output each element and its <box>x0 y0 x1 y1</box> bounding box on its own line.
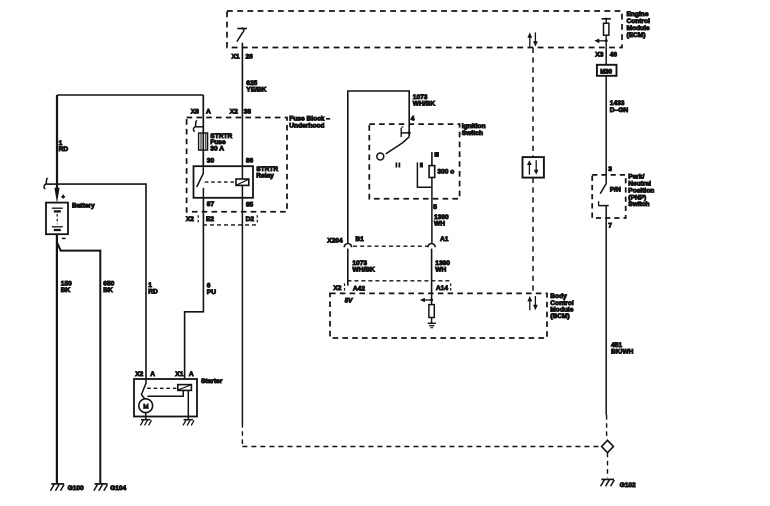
serial data gateway box with arrows <box>523 157 544 178</box>
ignition fixed contact pin 4 <box>401 127 411 137</box>
wire coil right side to ground <box>187 390 189 419</box>
battery symbol <box>46 203 95 239</box>
svg-text:D2: D2 <box>246 216 255 223</box>
svg-text:X1: X1 <box>232 53 240 60</box>
wire PNP pin 7 down (451 BK/WH) <box>606 206 633 415</box>
wire 1073 WH/BK below B1 <box>348 249 375 286</box>
ground below starter motor <box>140 420 151 426</box>
wire branch battery junction to starter <box>57 184 146 379</box>
node X204 inline connectors B1 A1 <box>327 236 448 247</box>
wire 1 RD battery to fuse block <box>57 95 68 189</box>
svg-text:BK/WH: BK/WH <box>611 349 634 356</box>
node BCM connector row X2 A42 A14 <box>333 281 450 293</box>
svg-text:WH: WH <box>434 221 445 228</box>
relay switch blade <box>197 166 204 198</box>
splice hook at battery positive <box>44 178 57 189</box>
BCM dashed box <box>330 293 574 338</box>
svg-text:PU: PU <box>207 289 216 296</box>
motor M <box>139 399 153 413</box>
BCM input arrow on A14 <box>420 293 433 304</box>
wire label 1 RD starter branch <box>148 282 158 296</box>
svg-text:86: 86 <box>246 158 254 165</box>
svg-text:(BCM): (BCM) <box>550 313 569 320</box>
wire dashed diamond to G102 <box>607 453 609 478</box>
wire battery feed into fuse <box>202 95 204 166</box>
wire 650 BK branch to G104 <box>57 242 115 483</box>
svg-text:BK: BK <box>61 287 71 294</box>
resistor pull-up inside ECM <box>602 18 611 48</box>
node X8 A and X2 38 connector labels <box>191 109 252 116</box>
svg-text:Relay: Relay <box>256 173 274 180</box>
serial data arrows inside ECM <box>527 32 537 46</box>
relay STRTR box <box>194 166 279 198</box>
splice terminal at fuse input <box>193 121 203 132</box>
svg-text:X3: X3 <box>595 52 603 59</box>
svg-text:WH: WH <box>435 267 446 274</box>
svg-text:Control: Control <box>627 18 651 25</box>
ground below starter solenoid <box>183 420 194 426</box>
PNP switch dashed box <box>592 174 654 218</box>
node X2 A / X1 A starter connector labels <box>135 371 194 378</box>
svg-text:5: 5 <box>433 204 437 211</box>
svg-text:X204: X204 <box>327 238 343 245</box>
svg-text:I I: I I <box>396 163 401 169</box>
ignition position marks I <box>396 163 401 169</box>
svg-text:G100: G100 <box>68 485 84 492</box>
wire relay 87 to starter solenoid (6 PU) <box>185 198 217 379</box>
svg-text:Switch: Switch <box>462 130 483 137</box>
fuse STRTR 30A <box>199 133 233 153</box>
module U1 Engine Control Module (ECM) dashed box <box>227 11 650 48</box>
ignition switch blade <box>386 137 409 154</box>
wire dashed into splice diamond <box>606 415 608 440</box>
PNP fixed contact <box>598 201 608 205</box>
svg-text:M30: M30 <box>600 68 612 75</box>
svg-text:RD: RD <box>59 146 69 153</box>
svg-text:WH/BK: WH/BK <box>352 267 375 274</box>
battery feed symbol inside ECM <box>237 27 247 41</box>
svg-text:(ECM): (ECM) <box>627 32 646 39</box>
svg-text:A: A <box>206 109 211 116</box>
wire motor to ground <box>145 413 147 420</box>
svg-text:Module: Module <box>627 25 650 32</box>
starter solenoid coil <box>178 385 192 391</box>
svg-text:5V: 5V <box>345 297 353 304</box>
PNP switch blade <box>600 175 621 194</box>
relay coil <box>236 118 249 199</box>
resistor inside BCM <box>429 305 434 318</box>
svg-text:3: 3 <box>608 166 612 173</box>
svg-text:A: A <box>189 371 194 378</box>
ground inside BCM <box>428 318 436 328</box>
svg-text:7: 7 <box>608 223 612 230</box>
svg-text:II: II <box>420 163 423 169</box>
svg-text:WH/BK: WH/BK <box>413 101 436 108</box>
svg-text:A14: A14 <box>436 285 448 292</box>
wire relay 85 via D2 (solid then dashed) <box>241 198 243 447</box>
svg-text:87: 87 <box>207 201 215 208</box>
svg-text:G104: G104 <box>110 485 126 492</box>
svg-text:D–GN: D–GN <box>610 107 629 114</box>
svg-text:A: A <box>150 371 155 378</box>
ground G104 <box>94 484 127 492</box>
wire 1390 WH below A1 <box>432 249 451 294</box>
ground G102 <box>601 479 636 489</box>
wire 1073 WH/BK from B1 up and over to ignition pin 4 <box>348 91 436 243</box>
svg-text:III: III <box>434 152 439 158</box>
svg-text:G102: G102 <box>620 482 636 489</box>
relay STRTR: pin labels 30 86 <box>207 158 254 165</box>
node X3 46 connector labels <box>595 48 617 65</box>
svg-text:30: 30 <box>207 158 215 165</box>
wire solenoid coil to motor junction <box>147 390 183 396</box>
svg-text:Engine: Engine <box>627 11 649 18</box>
ground G100 <box>50 484 84 492</box>
starter solenoid switch blade <box>141 379 146 399</box>
svg-text:Underhood: Underhood <box>289 123 324 130</box>
svg-text:Switch: Switch <box>628 201 649 208</box>
svg-text:BK: BK <box>103 287 113 294</box>
relay pin labels 87 85 <box>207 201 254 209</box>
arrowhead into battery positive <box>54 188 64 203</box>
svg-text:46: 46 <box>610 52 618 59</box>
svg-text:Battery: Battery <box>72 203 95 210</box>
svg-text:P/N: P/N <box>610 187 621 194</box>
node X2 E2 D2 connector row <box>186 215 257 225</box>
starter box <box>134 378 223 416</box>
svg-text:38: 38 <box>244 109 252 116</box>
ignition contact II and wire <box>417 162 431 187</box>
svg-text:Fuse Block –: Fuse Block – <box>289 116 330 123</box>
wire 1433 D-GN <box>606 76 628 175</box>
splice diamond S-point <box>602 440 614 452</box>
svg-text:30 A: 30 A <box>210 145 224 152</box>
svg-text:+: + <box>62 195 65 201</box>
ignition switch pivot <box>377 153 384 160</box>
wire serial data gateway to BCM (dashed) <box>532 178 534 294</box>
svg-text:85: 85 <box>246 202 254 209</box>
svg-text:RD: RD <box>148 289 158 296</box>
ignition switch dashed box <box>369 123 485 199</box>
svg-text:300 o: 300 o <box>437 169 454 176</box>
wire label 625 YE/BK <box>246 80 266 94</box>
svg-text:YE/BK: YE/BK <box>246 87 266 94</box>
fuse block underhood dashed box <box>187 116 331 212</box>
svg-text:A1: A1 <box>440 236 449 243</box>
starter solenoid mechanical link (dashed) <box>147 387 177 389</box>
svg-text:A42: A42 <box>353 285 365 292</box>
relay mechanical link (dashed) <box>205 181 236 183</box>
svg-text:X1: X1 <box>175 371 183 378</box>
svg-text:E2: E2 <box>206 216 214 223</box>
node X1 26 connector labels <box>232 53 254 60</box>
connector M30 <box>597 65 617 76</box>
wire 625 YE/BK from ECM X1-26 down to fuse block X2-38 <box>241 43 243 118</box>
ignition contact III wire <box>432 152 439 166</box>
svg-text:X2: X2 <box>333 285 341 292</box>
svg-text:X8: X8 <box>191 109 199 116</box>
svg-text:X2: X2 <box>186 216 194 223</box>
svg-text:B1: B1 <box>355 236 364 243</box>
svg-text:Starter: Starter <box>201 378 223 385</box>
svg-text:4: 4 <box>411 115 415 122</box>
wire serial data ECM to gateway (dashed) <box>532 48 534 158</box>
wire 150 BK battery negative to G100 <box>57 234 72 483</box>
wire dashed crank signal to G102 rail <box>242 446 601 448</box>
resistor 300 ohm <box>429 166 454 178</box>
svg-text:X2: X2 <box>135 371 143 378</box>
wire ignition output pin 5 <box>432 178 449 244</box>
serial data arrows inside BCM <box>527 296 537 310</box>
wire battery positive feed horizontal <box>57 94 203 96</box>
svg-text:M: M <box>143 403 148 410</box>
svg-text:X2: X2 <box>230 109 238 116</box>
label 5V reference <box>345 297 353 304</box>
ECM output arrow <box>594 39 608 44</box>
svg-text:26: 26 <box>246 53 254 60</box>
